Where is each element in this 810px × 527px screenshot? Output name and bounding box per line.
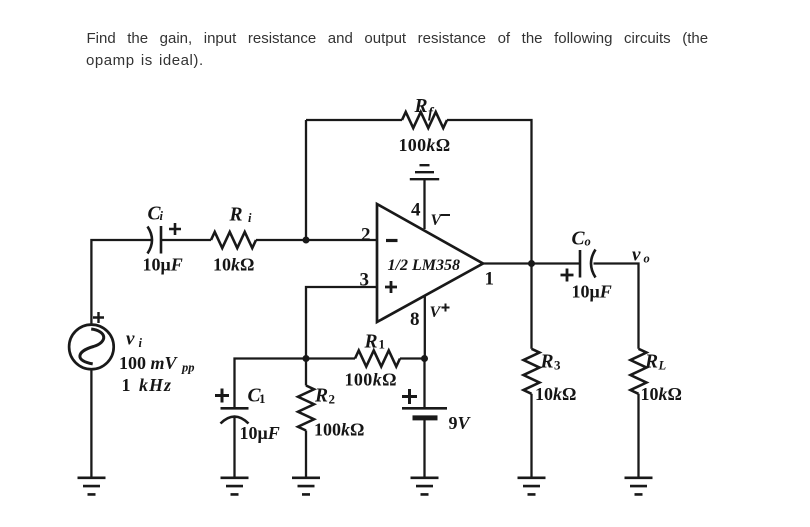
svg-text:9V: 9V: [449, 413, 472, 433]
capacitor Co: [580, 250, 596, 278]
AC source sine wave: [80, 329, 104, 364]
wire: supply node to battery: [423, 359, 425, 409]
wire: R1 to supply node: [400, 357, 425, 359]
wire: bias node to C1: [235, 359, 307, 409]
svg-text:R: R: [314, 386, 328, 407]
problem statement text line 2: [86, 53, 204, 68]
label RL: [644, 352, 667, 373]
wire: Rf to output node vertical: [447, 120, 532, 264]
wire: feedback left vertical branch: [305, 120, 307, 240]
svg-text:10μF: 10μF: [143, 255, 183, 275]
value 100 mVpp of source: [119, 353, 195, 375]
label V+ of pin 8: [430, 304, 442, 321]
ground of battery: [411, 478, 439, 495]
svg-text:10kΩ: 10kΩ: [641, 384, 682, 404]
svg-text:1/2 LM358: 1/2 LM358: [388, 257, 460, 274]
wire: Ci to Ri: [161, 239, 211, 241]
value 10kOhm of RL: [641, 384, 682, 404]
value 100kOhm of R2: [314, 420, 364, 440]
label C1: [248, 386, 266, 407]
svg-text:R: R: [414, 96, 428, 117]
svg-text:C: C: [572, 229, 586, 250]
value 10uF of Ci: [143, 255, 183, 275]
label V- of pin 4: [431, 212, 443, 229]
svg-text:2: 2: [329, 392, 336, 407]
op-amp U1 triangle: [377, 204, 483, 322]
ground of R3: [518, 478, 546, 495]
label Rf: [414, 96, 436, 122]
wire: battery to ground: [423, 420, 425, 478]
wire: source top to capacitor Ci: [91, 240, 151, 325]
svg-text:10μF: 10μF: [572, 282, 612, 302]
capacitor Ci: [148, 226, 162, 254]
svg-text:o: o: [585, 235, 591, 249]
capacitor C1: [221, 408, 249, 423]
svg-text:v: v: [126, 329, 135, 350]
svg-text:10kΩ: 10kΩ: [213, 255, 254, 275]
ground: V- supply inverted ground above op-amp: [410, 165, 439, 179]
label vi: [126, 329, 143, 351]
label vo: [632, 245, 650, 266]
value 10uF of C1: [240, 423, 280, 443]
ground of C1: [221, 478, 249, 495]
svg-text:10kΩ: 10kΩ: [535, 384, 576, 404]
svg-text:i: i: [139, 336, 143, 350]
wire: output junction down to R3: [530, 264, 532, 349]
svg-text:V: V: [430, 304, 442, 321]
AC source vi circle: [69, 325, 114, 370]
svg-text:i: i: [248, 211, 252, 225]
label R1: [364, 332, 386, 353]
resistor Rf: [402, 112, 447, 128]
value 1 kHz of source: [122, 375, 173, 395]
node: V+ supply junction: [421, 355, 428, 362]
label R2: [314, 386, 335, 407]
ground of R2: [292, 478, 320, 495]
wire: op-amp output to junction: [483, 262, 532, 264]
svg-text:v: v: [632, 245, 641, 266]
plus polarity mark of battery: [402, 389, 417, 404]
resistor R3: [524, 349, 540, 394]
value 100kOhm of R1: [345, 370, 397, 390]
svg-text:i: i: [160, 209, 164, 223]
wire: top feedback run to Rf: [306, 119, 402, 121]
label Ci: [148, 204, 164, 225]
label Co: [572, 229, 591, 250]
pin number 1 output: [485, 269, 495, 290]
plus polarity mark of Co: [561, 269, 574, 282]
label R3: [540, 352, 562, 373]
value 10kOhm of R3: [535, 384, 576, 404]
wire: pin 8 stem: [424, 296, 426, 359]
wire: Co to vo corner down to RL: [594, 264, 639, 349]
plus polarity mark of Ci: [169, 223, 181, 235]
pin number 2: [361, 225, 371, 246]
wire: R2 to ground: [305, 431, 307, 478]
node: output junction: [528, 260, 535, 267]
wire: R2 top stem: [305, 359, 307, 386]
svg-text:L: L: [658, 359, 667, 373]
pin number 8: [410, 309, 420, 330]
svg-text:R: R: [364, 332, 378, 353]
svg-text:100kΩ: 100kΩ: [345, 370, 397, 390]
resistor Ri: [211, 232, 256, 248]
node: inverting input junction: [303, 237, 310, 244]
svg-text:100kΩ: 100kΩ: [314, 420, 364, 440]
svg-text:R: R: [540, 352, 554, 373]
resistor R2: [298, 386, 314, 431]
value 10uF of Co: [572, 282, 612, 302]
svg-text:1: 1: [485, 269, 495, 290]
svg-text:2: 2: [361, 225, 371, 246]
wire: bias node to R1: [306, 357, 355, 359]
pin number 4: [411, 200, 421, 221]
wire: RL to ground: [637, 394, 639, 478]
svg-text:R: R: [229, 205, 243, 226]
svg-text:3: 3: [554, 358, 561, 373]
op-amp inverting input minus sign: [386, 239, 398, 242]
value 10kOhm of Ri: [213, 255, 254, 275]
svg-text:1: 1: [379, 337, 386, 352]
ground of source: [78, 478, 106, 495]
resistor RL: [631, 349, 647, 394]
wire: Ri to op-amp pin 2: [256, 239, 377, 241]
wire: R3 to ground: [530, 394, 532, 478]
svg-text:8: 8: [410, 309, 420, 330]
value 9V of battery: [449, 413, 472, 433]
svg-text:4: 4: [411, 200, 421, 221]
node: non-inverting bias junction: [303, 355, 310, 362]
svg-text:pp: pp: [181, 361, 195, 375]
label Ri: [229, 205, 253, 226]
wire: C1 to ground: [233, 418, 235, 478]
svg-text:R: R: [644, 352, 658, 373]
op-amp non-inverting input plus sign: [385, 281, 397, 293]
pin number 3: [360, 270, 370, 291]
superscript minus of V-: [441, 214, 451, 216]
wire: source to ground: [90, 369, 92, 478]
svg-text:o: o: [644, 252, 650, 266]
label 1/2 LM358: [388, 257, 460, 274]
wire: output junction to Co: [532, 262, 581, 264]
value 100kOhm of Rf: [399, 135, 451, 155]
problem statement text line 1: [87, 31, 709, 46]
resistor R1: [355, 351, 400, 367]
svg-text:10μF: 10μF: [240, 423, 280, 443]
svg-text:100 mV: 100 mV: [119, 353, 179, 373]
svg-text:100kΩ: 100kΩ: [399, 135, 451, 155]
wire: pin 3 to bias node: [306, 287, 377, 359]
plus polarity mark of source: [93, 312, 104, 323]
svg-text:1 kHz: 1 kHz: [122, 375, 173, 395]
battery 9V: [402, 408, 447, 418]
plus polarity mark of C1: [215, 389, 229, 403]
wire: pin 4 stem: [423, 179, 425, 229]
superscript plus of V+: [442, 304, 450, 312]
ground of RL: [625, 478, 653, 495]
svg-text:1: 1: [259, 391, 266, 406]
